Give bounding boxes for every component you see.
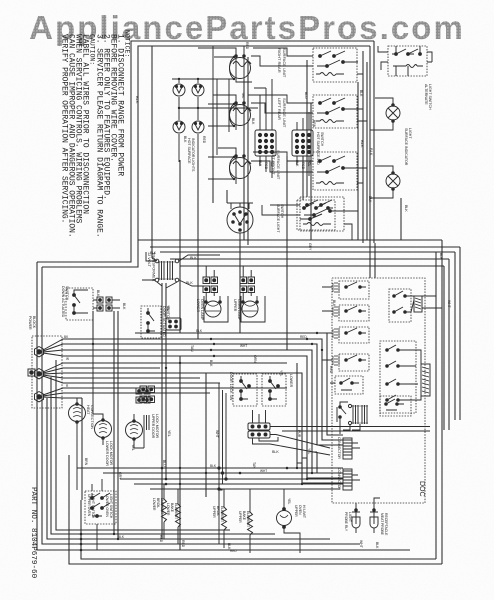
broil element resistor <box>162 492 167 530</box>
frame: top-right drop wires <box>373 41 375 243</box>
connector grid block CN1 <box>255 130 276 156</box>
stepped wire triple group <box>218 383 227 544</box>
lower relay group dashed <box>380 341 416 413</box>
label diode1 <box>344 512 352 532</box>
wires lamp1 <box>370 98 393 130</box>
label upper bake <box>238 511 250 527</box>
connector pair P2 above lamp2 <box>240 277 255 293</box>
infinite switch box SW4 <box>300 197 344 231</box>
door actuated switch B box <box>141 306 161 338</box>
label door lock switch 1 <box>229 372 233 401</box>
notice text block (rotated) <box>60 30 131 238</box>
oven lamp 1 <box>204 296 228 322</box>
surface unit right front SU1 <box>230 55 252 79</box>
wires into doc P2 <box>297 452 343 483</box>
bus junction dots <box>296 467 313 485</box>
junction dots mid buses <box>92 332 323 369</box>
wires doc bottom <box>340 422 360 480</box>
long vertical drops midfield <box>161 283 163 539</box>
relay K3 <box>333 327 369 343</box>
junction dots bottom left <box>80 533 83 552</box>
lower door actuated switch box <box>66 288 93 320</box>
DOC board dashed outline <box>332 278 425 503</box>
power block dashed outline <box>32 336 62 408</box>
label bake element <box>166 503 178 519</box>
wires door switch area <box>81 290 120 313</box>
wire labels sprinkle <box>64 42 451 553</box>
switch arc SU3 <box>208 157 234 179</box>
label door actuated B <box>162 306 170 337</box>
label diode2 <box>380 513 388 536</box>
label light switch cluster <box>87 494 113 519</box>
wire left drop x166 <box>152 258 157 261</box>
upper lock motor <box>126 420 143 441</box>
wires transformer <box>142 252 220 288</box>
relay K2 <box>333 305 369 321</box>
wires motors <box>77 339 144 470</box>
power terminal L2 <box>35 392 44 402</box>
label SU3 <box>271 150 281 180</box>
label lamp1 <box>404 128 412 166</box>
label P1 <box>337 437 341 459</box>
probe receptacle diode 1 <box>352 509 360 528</box>
label door actuated switch <box>61 286 69 318</box>
wires stack right to bus <box>339 62 367 240</box>
switch arc SU1 <box>172 57 234 79</box>
hot surface indicator light D <box>192 121 204 133</box>
wire labels below CN1 <box>258 160 311 170</box>
power terminal N <box>35 369 44 379</box>
relay K4 <box>333 354 369 371</box>
upper bake element resistor <box>248 505 253 542</box>
label oven lamp1 <box>196 299 204 321</box>
door lock switch box 2 <box>262 374 286 406</box>
connector bars upper lock motor <box>144 415 149 430</box>
label broil element <box>152 498 164 514</box>
label SU1 <box>277 48 287 78</box>
label alt switch <box>424 84 432 110</box>
upper broil element resistor <box>222 500 227 538</box>
label hot surface indicator lights <box>187 138 195 172</box>
connector hatch block mid <box>414 296 422 312</box>
wires doc right <box>404 296 442 400</box>
wires connector mid-bottom <box>253 410 431 455</box>
lower lock motor <box>95 419 112 440</box>
hot surface indicator light C <box>173 121 185 133</box>
label CN2 <box>316 132 324 165</box>
wire drop right x401 <box>400 198 402 240</box>
connector grid block CN2 <box>292 130 313 156</box>
ground terminal <box>28 369 35 376</box>
label oven lamp2 <box>233 299 241 321</box>
relay K7 small dashed <box>380 396 411 416</box>
oven cavity lamp 1 <box>386 104 400 123</box>
convection motor <box>69 403 86 424</box>
bake element resistor <box>176 497 181 535</box>
light switch cluster dashed box <box>85 491 116 524</box>
connector pairs lower left <box>140 386 155 403</box>
wires indicator lights <box>172 79 258 162</box>
bus junctions <box>161 467 289 486</box>
lower bus group y460-490 <box>77 467 343 469</box>
wire fan from N <box>43 363 287 383</box>
connector pair P1 above lamp1 <box>203 277 218 293</box>
infinite switch box SW3 <box>313 152 357 190</box>
hi-limit thermostat <box>277 508 292 529</box>
surface unit SU3 <box>230 155 252 179</box>
connector squares above upper motor <box>136 388 150 403</box>
label lower lock motor <box>105 441 113 466</box>
wires su drops <box>236 75 252 184</box>
label hi-limit <box>294 505 306 518</box>
frame: inner border wire N <box>42 46 370 267</box>
wires lamp2 <box>243 292 257 302</box>
connector hatch block lower <box>421 364 430 396</box>
label upper broil <box>212 506 224 522</box>
label SU2 <box>277 98 287 128</box>
doc low-voltage transformer <box>348 404 368 424</box>
oven lamp 2 <box>241 296 265 322</box>
infinite switch box SW1 <box>313 48 357 82</box>
mid bus group y240-266 <box>138 239 442 241</box>
wires lamp1 <box>206 292 220 302</box>
12V transformer <box>155 259 179 282</box>
hot surface indicator light A <box>173 84 185 96</box>
connector block mid-bottom <box>248 423 270 438</box>
wires lamp2 <box>370 166 393 198</box>
wires diodes <box>356 498 380 533</box>
wire verticals SU feeds <box>244 57 311 245</box>
bottom bus group nested corners <box>56 360 230 530</box>
right side verticals <box>459 247 461 420</box>
wires switch stack to units <box>251 48 313 215</box>
wire drops from bus to lamps <box>206 266 251 277</box>
switch arc SU2 <box>208 104 234 126</box>
label upper lock motor <box>151 414 159 439</box>
surface unit SU2 <box>230 102 252 126</box>
hot surface indicator light B <box>192 84 204 96</box>
label clock <box>276 204 284 233</box>
connector block doc P2 <box>343 469 352 490</box>
wire left drop x162 <box>151 46 153 258</box>
connector block small left <box>166 318 181 330</box>
wires light switch cluster <box>77 470 102 550</box>
wires connector grids <box>248 79 309 178</box>
wire fan from L2 <box>43 388 287 398</box>
connector squares right of door switch <box>97 297 112 311</box>
label door lock switch 2 <box>289 374 293 388</box>
wires bottom elements <box>164 460 312 553</box>
frame: outer border wire L1 <box>37 41 374 262</box>
label P2 <box>337 468 341 490</box>
label power block <box>28 316 36 330</box>
oven cavity lamp 2 <box>386 172 400 191</box>
relay K1 <box>333 281 369 299</box>
right bus verticals x358-372 <box>357 82 359 240</box>
wire drop x217 <box>216 79 218 155</box>
relay K5 left <box>335 376 363 394</box>
power terminal L1 <box>35 347 44 357</box>
relay pair mid dashed <box>389 289 411 322</box>
clock / oven control motor <box>227 203 253 240</box>
long verticals lower mid <box>113 311 115 534</box>
mid buses y333-360 with right turns down <box>135 333 343 435</box>
infinite switch box SW2 <box>313 95 357 128</box>
label convection motor <box>86 405 94 429</box>
wires surface units loop <box>198 46 244 179</box>
grill switch box <box>297 200 335 230</box>
alternate oven light switch box <box>388 46 427 76</box>
probe receptacle diode 2 <box>370 509 378 528</box>
wires doc left <box>322 287 335 383</box>
wires alt switch <box>378 46 432 76</box>
relay K6 beside doc transformer <box>337 402 348 422</box>
wire fan from L1 <box>43 339 287 356</box>
door lock switch box 1 <box>233 374 257 406</box>
connector block doc P1 <box>343 438 352 459</box>
label transformer <box>147 252 156 282</box>
